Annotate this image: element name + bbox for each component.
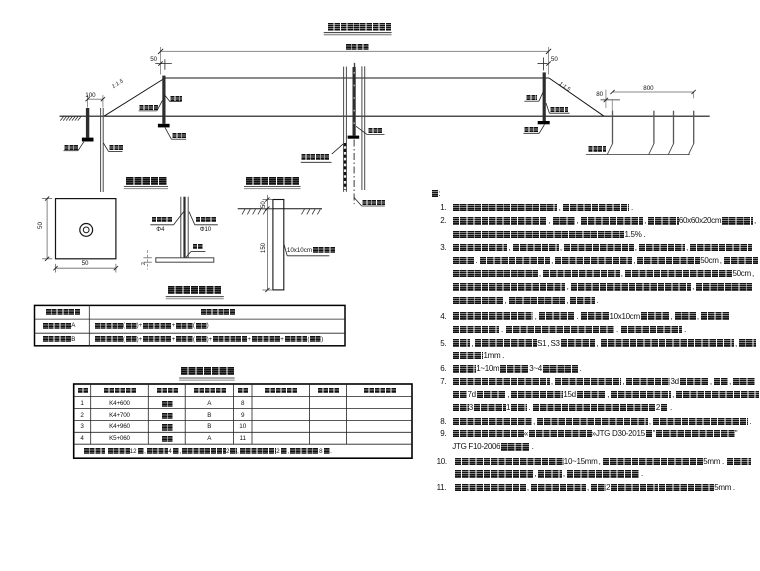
- dimension text 800: [643, 85, 653, 92]
- design table grid (监测断面设计表): [74, 384, 412, 458]
- slope label 1:1.5 right: [558, 81, 571, 93]
- detail ground hatch left: [242, 209, 266, 214]
- note 3 line 4: [452, 283, 751, 291]
- elevation: base plate bar: [156, 258, 214, 262]
- dimension text 80 right toe: [596, 91, 603, 98]
- main title 软土路基监测横断面图: [327, 23, 391, 41]
- ground hatch at left end: [60, 117, 81, 121]
- right shoulder settlement rod: [543, 72, 546, 121]
- detail title underline 位移边桩大样图: [244, 187, 301, 189]
- dimension 100 between toe pile and inclinometer: [86, 95, 106, 108]
- leader for inclinometer label: [103, 143, 122, 151]
- leader for right 保护套管 label: [546, 103, 570, 113]
- edge pile dimension lines 50 and 150: [262, 195, 272, 292]
- settlement plate plan view square: [56, 199, 116, 259]
- label 路基宽度: [345, 44, 368, 62]
- type table title underline: [166, 297, 224, 299]
- leader for right 测杆 label: [524, 90, 544, 102]
- label 金属测杆: [151, 217, 172, 235]
- detail ground line: [238, 208, 322, 210]
- design table title underline: [179, 378, 235, 380]
- leader for left shoulder 沉降板 label: [165, 128, 186, 140]
- leader for centre-line label: [354, 198, 385, 207]
- label 测杆 left: [170, 96, 182, 114]
- label 沉降板 at left toe: [64, 145, 78, 163]
- label 测斜管 at left toe: [109, 145, 123, 163]
- label 沉降板 right shoulder: [524, 127, 538, 145]
- note 1: [452, 203, 634, 211]
- center settlement rod: [353, 63, 355, 136]
- table1 row B type cell: [42, 336, 75, 342]
- label Φ4: [156, 227, 164, 233]
- notes heading 注:: [431, 190, 440, 198]
- displacement edge pile 3: [673, 111, 675, 144]
- main title underline: [324, 33, 392, 35]
- label 沉降板 centre: [368, 128, 383, 146]
- note 10 line 2: [454, 470, 645, 478]
- left shoulder settlement plate: [158, 124, 170, 128]
- detail title underline 沉降板大样: [124, 187, 168, 189]
- note 7 line 2: [452, 391, 758, 399]
- detail title 位移边桩大样图: [245, 177, 299, 195]
- label 孔隙水压力计: [301, 154, 330, 172]
- note 9 line 2: [452, 443, 535, 451]
- note 3 line 2: [452, 257, 758, 265]
- elevation: rod and casing: [181, 197, 188, 258]
- layered settlement pipe right of centre: [362, 66, 365, 190]
- note 2 line 1: [452, 217, 757, 225]
- leader for right shoulder 沉降板 label: [523, 125, 544, 134]
- right 50 dimension ticks: [538, 58, 551, 71]
- wire: right slope 1:1.5: [549, 78, 604, 116]
- slope label 1:1.5 left: [111, 79, 125, 91]
- note 4 line 2: [452, 325, 687, 333]
- displacement edge pile 1: [612, 111, 614, 144]
- wire: left slope 1:1.5: [104, 78, 165, 116]
- note 3 line 1: [452, 244, 752, 252]
- dimension 80 at right toe: [601, 90, 620, 111]
- dimension text 50 right: [551, 56, 558, 63]
- plan view bottom dimension 50: [53, 264, 118, 273]
- rod hole circles in plan view: [80, 224, 93, 237]
- table2 summary row 合计: [83, 448, 332, 454]
- dimension text 100 left toe: [85, 92, 95, 99]
- note 6: [452, 365, 583, 373]
- label 位移边桩 at right piles: [588, 146, 607, 164]
- wire: natural ground line: [60, 115, 710, 117]
- note 7 line 3: [452, 404, 673, 412]
- plan dim text 50 bottom: [82, 260, 89, 267]
- detail ground hatch right: [302, 209, 321, 214]
- note 5 line 1: [452, 339, 756, 347]
- note 3 line 5: [452, 296, 600, 304]
- table2 data rows: [74, 400, 91, 407]
- settlement plate at left toe (plate): [82, 138, 94, 142]
- leader for 塑料套管: [189, 212, 218, 225]
- table1 row A items: [94, 323, 209, 329]
- note 8: [452, 417, 753, 425]
- leader for 10x10cm precast pile label: [284, 244, 330, 256]
- right shoulder settlement plate: [538, 121, 550, 124]
- table1 header 监测断面类型: [45, 309, 80, 327]
- leader for center 沉降板 label: [356, 126, 385, 134]
- label 沉降板 left shoulder: [172, 133, 186, 151]
- leader for left 保护套管 label: [139, 101, 163, 111]
- label Φ10: [200, 227, 211, 233]
- monitoring type table grid (监测断面类型表): [35, 305, 346, 345]
- plan dim text 50 rotated: [37, 222, 44, 229]
- label 10x10cm预制边桩: [287, 247, 336, 253]
- label 测杆 right: [526, 95, 538, 113]
- displacement edge pile 4: [693, 111, 695, 144]
- leader for 孔隙水压力计 label: [301, 144, 343, 162]
- plate thickness 2: [141, 262, 147, 265]
- note 9 line 1: [452, 430, 737, 438]
- plate thickness dimension marks: [143, 250, 151, 270]
- table1 header 监测项目组合: [200, 309, 235, 327]
- edge pile rectangle: [273, 200, 284, 290]
- table1 row B items: [94, 336, 324, 342]
- plan view left dimension 50: [42, 197, 52, 261]
- dimension 800 over edge piles: [610, 90, 695, 98]
- note 10 line 1: [454, 457, 751, 465]
- note 2 line 2: [452, 230, 647, 238]
- table1 row A type cell: [42, 323, 75, 329]
- wire: embankment top surface: [165, 77, 549, 79]
- table1 title 监测断面类型表: [167, 286, 222, 304]
- left shoulder settlement rod: [162, 76, 165, 124]
- wire: roadbed-width dimension line (路基宽度): [158, 47, 551, 75]
- note 5 line 2: [452, 352, 506, 360]
- leader for left shoulder 测杆 label: [164, 94, 182, 101]
- label 保护套管 left: [139, 105, 158, 123]
- settlement plate at left toe (rod): [86, 108, 89, 138]
- label 保护套管 right: [550, 107, 569, 125]
- center settlement plate: [348, 136, 360, 139]
- label 塑料套管: [195, 217, 216, 235]
- note 4 line 1: [452, 312, 729, 320]
- label 焊接: [192, 244, 203, 262]
- road centre line (dash-dot): [353, 140, 355, 205]
- table2 headers: [77, 388, 88, 406]
- leader for 焊接: [186, 252, 206, 258]
- detail title 沉降板大样: [125, 177, 167, 195]
- pore pressure gauge pipe (孔隙水压力计): [344, 67, 347, 192]
- label 路基中心线: [362, 200, 385, 218]
- edge pile dim 150 rotated: [261, 242, 267, 252]
- displacement edge pile 2: [653, 111, 655, 144]
- inclinometer pipe at left toe (测斜管): [101, 108, 104, 192]
- leader bracket for 位移边桩 label: [586, 144, 694, 155]
- note 7 line 1: [452, 378, 754, 386]
- note 11: [454, 483, 737, 491]
- left 50 dimension ticks: [155, 59, 172, 70]
- dimension text 50 left: [150, 56, 157, 63]
- table2 title 监测断面设计表: [180, 367, 235, 385]
- leader for 金属测杆: [150, 212, 183, 225]
- leader for left-toe settlement plate label: [64, 142, 84, 151]
- edge pile dim 50 rotated: [261, 201, 267, 208]
- note 3 line 3: [452, 270, 755, 278]
